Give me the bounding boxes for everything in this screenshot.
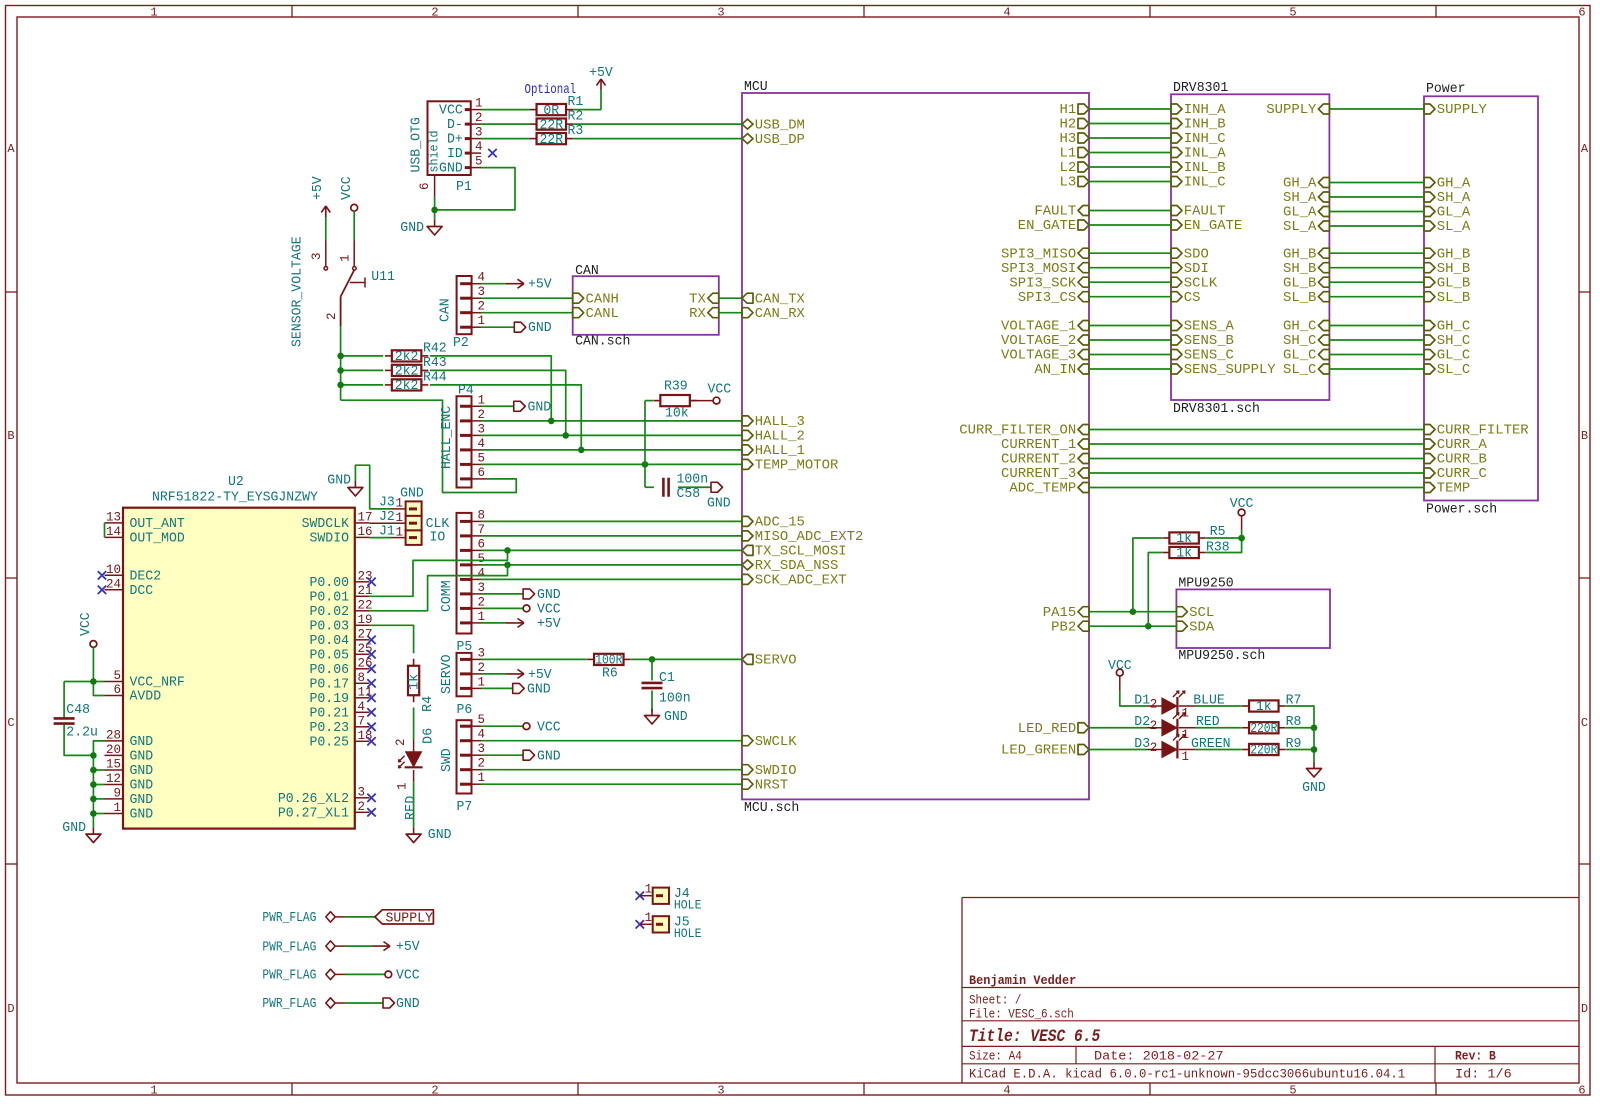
svg-text:CURR_C: CURR_C xyxy=(1437,467,1487,482)
svg-text:HOLE: HOLE xyxy=(674,927,702,941)
svg-text:SENS_C: SENS_C xyxy=(1184,349,1234,364)
svg-text:AN_IN: AN_IN xyxy=(1034,363,1076,378)
wire VCC to D1 xyxy=(1120,690,1147,706)
svg-text:2: 2 xyxy=(431,1084,438,1098)
svg-text:1: 1 xyxy=(396,782,410,790)
sheet pin EN_GATE (DRV8301) xyxy=(1171,219,1242,234)
ground symbol (LEDs) xyxy=(1302,762,1326,796)
svg-text:P6: P6 xyxy=(457,703,473,718)
svg-text:TX_SCL_MOSI: TX_SCL_MOSI xyxy=(755,545,847,560)
resistor R38 xyxy=(1162,541,1229,562)
sheet pin CURR_A (Power) xyxy=(1424,438,1488,453)
svg-text:CURR_FILTER: CURR_FILTER xyxy=(1437,424,1529,439)
wire TX_SCL_MOSI xyxy=(481,549,742,551)
sheet pin GL_A (Power) xyxy=(1424,206,1471,221)
sheet CAN (CAN.sch) xyxy=(573,264,719,350)
sheet pin AN_IN xyxy=(1034,363,1089,378)
power +5V (flag) xyxy=(372,940,421,955)
sheet MPU9250 (MPU9250.sch) xyxy=(1176,577,1330,665)
svg-text:Optional: Optional xyxy=(525,82,577,98)
svg-text:SL_C: SL_C xyxy=(1437,363,1470,378)
svg-text:TEMP_MOTOR: TEMP_MOTOR xyxy=(755,459,839,474)
svg-text:GL_C: GL_C xyxy=(1437,349,1470,364)
svg-text:1: 1 xyxy=(150,6,157,20)
svg-text:CAN_TX: CAN_TX xyxy=(755,292,805,307)
svg-text:GND: GND xyxy=(1302,781,1326,796)
svg-text:SL_B: SL_B xyxy=(1437,291,1470,306)
wire CURR_B MCU to Power xyxy=(1089,458,1424,460)
label CLK IO xyxy=(426,517,451,546)
sheet pin RX xyxy=(689,307,719,322)
svg-text:8: 8 xyxy=(478,508,486,522)
wire P7 pin 3 to GND xyxy=(481,754,523,756)
svg-text:NRF51822-TY_EYSGJNZWY: NRF51822-TY_EYSGJNZWY xyxy=(152,491,318,506)
wire NRST xyxy=(481,783,742,785)
LED D3 GREEN xyxy=(1134,735,1230,764)
sheet pin TX xyxy=(689,292,719,307)
svg-text:2: 2 xyxy=(1150,741,1158,755)
svg-text:OUT_ANT: OUT_ANT xyxy=(130,517,185,532)
wire R7 to LED ground rail xyxy=(1286,706,1314,728)
sheet pin L3 xyxy=(1060,176,1090,191)
sheet pin CURR_FILTER (Power) xyxy=(1424,424,1529,439)
svg-text:VCC: VCC xyxy=(1230,497,1254,512)
svg-text:2: 2 xyxy=(1150,698,1158,712)
svg-text:MISO_ADC_EXT2: MISO_ADC_EXT2 xyxy=(755,530,864,545)
svg-text:GH_A: GH_A xyxy=(1283,177,1317,192)
sheet pin INH_B (DRV8301) xyxy=(1171,118,1226,133)
svg-text:2: 2 xyxy=(478,757,486,771)
svg-text:R4: R4 xyxy=(421,696,436,712)
svg-text:P2: P2 xyxy=(453,336,469,351)
svg-text:P0.23: P0.23 xyxy=(310,721,350,736)
svg-text:INH_C: INH_C xyxy=(1184,132,1226,147)
svg-text:SDI: SDI xyxy=(1184,262,1209,277)
svg-text:R44: R44 xyxy=(423,371,447,386)
sheet pin TEMP (Power) xyxy=(1424,482,1470,497)
wire ADC_15 xyxy=(481,520,742,522)
connector P6 SERVO xyxy=(440,646,485,718)
sheet pin CAN_RX xyxy=(742,307,805,322)
wire P5 pin 3 to GND xyxy=(481,593,523,595)
wire P7 pin 5 to VCC xyxy=(481,725,523,727)
svg-text:TEMP: TEMP xyxy=(1437,482,1470,497)
power +5V (U11) xyxy=(311,175,330,217)
sheet pin TEMP_MOTOR xyxy=(742,459,838,474)
wire PWR_FLAG to SUPPLY xyxy=(345,916,375,918)
junction LED rail at R8 xyxy=(1311,724,1318,731)
sheet pin HALL_3 xyxy=(742,415,805,430)
wire SWDIO xyxy=(481,769,742,771)
svg-text:SH_B: SH_B xyxy=(1437,262,1470,277)
svg-text:5: 5 xyxy=(1289,6,1296,20)
wire PB2 to SDA xyxy=(1089,625,1176,627)
wire VOLTAGE_2 MCU to DRV8301 xyxy=(1089,339,1171,341)
sheet pin SDO (DRV8301) xyxy=(1171,247,1209,262)
svg-text:H1: H1 xyxy=(1060,103,1077,118)
sheet pin SWCLK xyxy=(742,735,797,750)
sheet pin L2 xyxy=(1060,161,1090,176)
no-connect U2 P0.21 xyxy=(367,708,375,716)
wire MISO_ADC_EXT2 xyxy=(481,535,742,537)
svg-text:1: 1 xyxy=(645,883,653,897)
svg-text:GND: GND xyxy=(528,400,552,415)
svg-text:H2: H2 xyxy=(1060,118,1077,133)
svg-text:AVDD: AVDD xyxy=(130,690,162,705)
svg-text:R39: R39 xyxy=(664,380,688,395)
sheet pin MISO_ADC_EXT2 xyxy=(742,530,863,545)
svg-text:D-: D- xyxy=(447,118,463,133)
global label GND (CAN) xyxy=(514,321,551,336)
wire LED_GREEN to D3 xyxy=(1089,749,1147,751)
sheet pin H2 xyxy=(1060,118,1090,133)
wire H1 MCU to DRV8301 xyxy=(1089,108,1171,110)
connector P2 CAN xyxy=(439,271,486,351)
sheet pin ADC_TEMP xyxy=(1009,482,1089,497)
wire P1 GND and shield to ground xyxy=(435,168,515,220)
wire HALL_2 xyxy=(481,434,742,436)
wire P2 pin 4 to +5V xyxy=(481,283,506,285)
svg-text:3: 3 xyxy=(478,646,486,660)
power VCC (P7) xyxy=(523,720,561,735)
sheet pin GH_B (Power) xyxy=(1424,247,1470,262)
junction HALL_1 xyxy=(578,447,585,454)
wire R3 to MCU USB_DP xyxy=(573,138,742,140)
svg-text:SWDCLK: SWDCLK xyxy=(302,517,350,532)
wire R38 to VCC xyxy=(1206,538,1242,553)
resistor R8 xyxy=(1242,715,1301,737)
wire U11 pin 2 down to resistors and HALL_ENC pin 6 xyxy=(341,326,517,493)
svg-text:SH_A: SH_A xyxy=(1283,191,1317,206)
svg-text:2k2: 2k2 xyxy=(395,365,419,380)
sheet pin SUPPLY (Power) xyxy=(1424,103,1487,118)
svg-text:SCL: SCL xyxy=(1189,606,1214,621)
svg-text:SL_B: SL_B xyxy=(1283,291,1316,306)
wire PA15 to SCL xyxy=(1089,611,1176,613)
junction GND rail xyxy=(90,810,97,817)
sheet pin SL_B (Power) xyxy=(1424,291,1470,306)
svg-text:SL_A: SL_A xyxy=(1437,220,1471,235)
wire VCC to VCC_NRF AVDD and C48 xyxy=(64,647,104,717)
sheet MCU (MCU.sch) xyxy=(742,80,1089,816)
wire D6 to ground xyxy=(413,782,415,827)
wire SH_B DRV8301 to Power xyxy=(1329,267,1424,269)
wire CURR_FILTER MCU to Power xyxy=(1089,429,1424,431)
svg-text:4: 4 xyxy=(478,566,486,580)
wire SH_A DRV8301 to Power xyxy=(1329,196,1424,198)
svg-text:SUPPLY: SUPPLY xyxy=(386,911,433,926)
sheet pin FAULT xyxy=(1034,205,1089,220)
svg-text:shield: shield xyxy=(428,131,442,173)
wire PWR_FLAG to +5V xyxy=(345,945,372,947)
svg-text:GND: GND xyxy=(428,828,452,843)
sheet pin ADC_15 xyxy=(742,516,805,531)
wire R8 to LED ground rail xyxy=(1286,727,1314,729)
wire FAULT MCU to DRV8301 xyxy=(1089,210,1171,212)
resistor R44 xyxy=(385,371,447,395)
svg-text:VCC: VCC xyxy=(396,969,420,984)
svg-text:USB_DP: USB_DP xyxy=(755,133,805,148)
svg-text:A: A xyxy=(1581,142,1589,156)
junction GND rail xyxy=(90,796,97,803)
wire SERVO to C1 xyxy=(651,659,653,680)
svg-text:LED_GREEN: LED_GREEN xyxy=(1001,744,1076,759)
svg-text:VCC: VCC xyxy=(537,603,561,618)
svg-text:Rev: B: Rev: B xyxy=(1455,1050,1496,1064)
svg-text:SENS_B: SENS_B xyxy=(1184,334,1234,349)
connector P4 HALL_ENC xyxy=(440,384,486,488)
svg-text:GH_B: GH_B xyxy=(1437,247,1470,262)
global label GND (C58) xyxy=(707,482,731,511)
wire P0.02 to RX_SDA_NSS xyxy=(369,565,507,611)
svg-text:MPU9250: MPU9250 xyxy=(1178,577,1233,592)
svg-text:C1: C1 xyxy=(659,671,675,686)
svg-text:HALL_3: HALL_3 xyxy=(755,415,805,430)
svg-text:R6: R6 xyxy=(602,667,618,682)
wire PWR_FLAG to GND xyxy=(345,1002,383,1004)
svg-text:0R: 0R xyxy=(543,104,559,119)
svg-text:P0.21: P0.21 xyxy=(310,707,350,722)
power +5V (P6) xyxy=(506,668,553,683)
wire TEMP MCU to Power xyxy=(1089,487,1424,489)
svg-text:RX_SDA_NSS: RX_SDA_NSS xyxy=(755,559,839,574)
svg-text:GND: GND xyxy=(707,497,731,512)
svg-text:6: 6 xyxy=(478,466,486,480)
svg-text:ADC_TEMP: ADC_TEMP xyxy=(1009,482,1076,497)
svg-text:D: D xyxy=(1581,1002,1588,1016)
title block xyxy=(962,898,1579,1084)
sheet pin EN_GATE xyxy=(1018,219,1089,234)
global label GND (P6) xyxy=(513,683,551,698)
svg-text:P7: P7 xyxy=(457,800,473,815)
svg-text:HALL_1: HALL_1 xyxy=(755,444,805,459)
sheet pin HALL_2 xyxy=(742,430,805,445)
svg-text:22R: 22R xyxy=(539,118,563,133)
svg-text:Benjamin Vedder: Benjamin Vedder xyxy=(969,973,1076,988)
sheet pin GL_B (Power) xyxy=(1424,276,1470,291)
sheet pin CURRENT_2 xyxy=(1001,453,1089,468)
junction GND rail xyxy=(90,781,97,788)
power VCC (U2) xyxy=(79,612,97,647)
wire SH_C DRV8301 to Power xyxy=(1329,339,1424,341)
svg-text:1: 1 xyxy=(475,97,483,111)
junction TX_SCL_MOSI xyxy=(504,547,511,554)
svg-text:HOLE: HOLE xyxy=(674,899,702,913)
svg-text:FAULT: FAULT xyxy=(1034,205,1076,220)
wire P0.01 to TX_SCL_MOSI xyxy=(369,550,507,596)
wire L3 MCU to DRV8301 xyxy=(1089,181,1171,183)
svg-text:H3: H3 xyxy=(1060,132,1077,147)
svg-text:INL_C: INL_C xyxy=(1184,176,1226,191)
sheet pin GH_C (Power) xyxy=(1424,320,1470,335)
wire LED_RED to D2 xyxy=(1089,727,1147,729)
sheet pin CURRENT_3 xyxy=(1001,467,1089,482)
svg-text:GH_C: GH_C xyxy=(1283,320,1316,335)
wire SWDIO to J1 xyxy=(369,537,391,539)
wire CURR_C MCU to Power xyxy=(1089,472,1424,474)
wire TEMP_MOTOR xyxy=(481,463,742,465)
sheet pin INH_C (DRV8301) xyxy=(1171,132,1226,147)
junction P1 ground xyxy=(431,207,438,214)
wire VCC stem (MPU) xyxy=(1241,530,1243,538)
svg-text:1: 1 xyxy=(645,911,653,925)
svg-text:P0.03: P0.03 xyxy=(310,620,350,635)
ground symbol (P1) xyxy=(400,220,442,236)
sheet pin SPI3_MISO xyxy=(1001,247,1089,262)
svg-text:3: 3 xyxy=(478,581,486,595)
wire SWCLK xyxy=(481,740,742,742)
wire R44 to HALL_1 net xyxy=(430,385,581,450)
power +5V (USB) xyxy=(589,66,614,90)
svg-text:D3: D3 xyxy=(1134,737,1150,752)
svg-text:GL_B: GL_B xyxy=(1437,276,1470,291)
svg-text:4: 4 xyxy=(478,437,486,451)
no-connect U2 P0.23 xyxy=(367,723,375,731)
wire R6 to MCU SERVO xyxy=(631,658,742,660)
sheet pin GL_C (DRV8301 right) xyxy=(1283,349,1329,364)
capacitor C48 xyxy=(54,703,98,741)
sheet pin SL_C (Power) xyxy=(1424,363,1470,378)
svg-text:2: 2 xyxy=(478,661,486,675)
svg-text:SERVO: SERVO xyxy=(440,655,455,695)
wire H3 MCU to DRV8301 xyxy=(1089,137,1171,139)
junction pull-up VCC xyxy=(1238,535,1245,542)
wire D2 to R8 xyxy=(1195,727,1242,729)
wire VOLTAGE_1 MCU to DRV8301 xyxy=(1089,325,1171,327)
resistor R1 xyxy=(530,95,584,119)
svg-text:4: 4 xyxy=(1003,6,1010,20)
svg-text:R42: R42 xyxy=(423,342,447,357)
sheet pin L1 xyxy=(1060,147,1090,162)
svg-text:1: 1 xyxy=(339,254,353,262)
svg-text:P0.05: P0.05 xyxy=(310,649,350,664)
svg-text:P0.27_XL1: P0.27_XL1 xyxy=(278,807,349,822)
wire P1 VCC to R1 to +5V xyxy=(481,90,601,110)
svg-text:SWCLK: SWCLK xyxy=(755,735,798,750)
svg-text:PA15: PA15 xyxy=(1043,606,1076,621)
ground symbol (J3) xyxy=(327,474,363,497)
junction SERVO xyxy=(649,656,656,663)
ground symbol (C1) xyxy=(645,709,688,725)
svg-text:EN_GATE: EN_GATE xyxy=(1018,219,1076,234)
svg-text:P0.04: P0.04 xyxy=(310,634,350,649)
svg-text:SENSOR_VOLTAGE: SENSOR_VOLTAGE xyxy=(291,236,306,347)
svg-text:OUT_MOD: OUT_MOD xyxy=(130,532,185,547)
wire PWR_FLAG to VCC xyxy=(345,973,385,975)
svg-text:Size: A4: Size: A4 xyxy=(969,1050,1022,1064)
junction LED rail at R9 xyxy=(1311,746,1318,753)
resistor R5 xyxy=(1162,525,1225,547)
svg-text:D6: D6 xyxy=(422,728,437,744)
power VCC (P5) xyxy=(523,603,561,618)
junction GND rail xyxy=(90,752,97,759)
svg-text:P0.19: P0.19 xyxy=(310,692,350,707)
svg-text:220R: 220R xyxy=(1250,722,1277,737)
svg-text:GND: GND xyxy=(396,997,420,1012)
svg-text:D: D xyxy=(7,1002,14,1016)
svg-text:MPU9250.sch: MPU9250.sch xyxy=(1178,649,1265,664)
svg-text:GND: GND xyxy=(400,487,424,502)
resistor R6 xyxy=(587,654,631,682)
sheet pin CANH xyxy=(573,292,619,307)
global label GND (HALL) xyxy=(514,400,551,415)
sheet pin CURRENT_1 xyxy=(1001,438,1089,453)
power flag PWR_FLAG (GND) xyxy=(262,997,345,1012)
svg-text:B: B xyxy=(7,429,14,443)
svg-text:U2: U2 xyxy=(228,475,244,490)
wire antenna loop OUT_ANT to OUT_MOD xyxy=(104,523,106,538)
svg-text:P0.06: P0.06 xyxy=(310,663,350,678)
svg-text:2: 2 xyxy=(478,595,486,609)
svg-text:4: 4 xyxy=(478,271,486,285)
sheet Power (Power.sch) xyxy=(1424,82,1538,518)
wire SCL to R5 xyxy=(1133,538,1162,612)
svg-text:Power.sch: Power.sch xyxy=(1426,503,1497,518)
svg-text:3: 3 xyxy=(717,1084,724,1098)
sheet pin LED_GREEN xyxy=(1001,744,1089,759)
sheet pin USB_DM xyxy=(742,118,805,133)
svg-text:VCC: VCC xyxy=(1108,659,1132,674)
svg-text:1k: 1k xyxy=(408,674,423,690)
svg-text:GH_B: GH_B xyxy=(1283,247,1316,262)
resistor R2 xyxy=(530,110,584,134)
wire AN_IN MCU to DRV8301 xyxy=(1089,368,1171,370)
connector P1 USB_OTG xyxy=(410,97,483,196)
svg-text:+5V: +5V xyxy=(589,66,614,81)
sheet pin SENS_B (DRV8301) xyxy=(1171,334,1234,349)
svg-text:1: 1 xyxy=(478,610,486,624)
svg-text:2: 2 xyxy=(325,312,339,320)
svg-text:4: 4 xyxy=(478,728,486,742)
svg-text:DRV8301: DRV8301 xyxy=(1173,81,1228,96)
wire CANH xyxy=(481,297,573,299)
svg-text:P0.01: P0.01 xyxy=(310,591,350,606)
svg-text:CAN: CAN xyxy=(575,264,599,279)
svg-text:1: 1 xyxy=(478,771,486,785)
sheet pin NRST xyxy=(742,778,788,793)
svg-text:FAULT: FAULT xyxy=(1184,205,1226,220)
svg-text:GL_B: GL_B xyxy=(1283,276,1316,291)
svg-text:CAN: CAN xyxy=(439,298,454,322)
power VCC (R39) xyxy=(690,383,731,405)
sheet pin GH_A (DRV8301 right) xyxy=(1283,177,1329,192)
svg-text:6: 6 xyxy=(1578,6,1585,20)
svg-text:INL_A: INL_A xyxy=(1184,147,1227,162)
svg-text:1k: 1k xyxy=(1256,700,1272,715)
svg-text:2: 2 xyxy=(475,111,483,125)
wire CANL xyxy=(481,312,573,314)
svg-text:ADC_15: ADC_15 xyxy=(755,516,805,531)
wire SL_B DRV8301 to Power xyxy=(1329,296,1424,298)
svg-text:CURR_A: CURR_A xyxy=(1437,438,1488,453)
svg-text:3: 3 xyxy=(478,422,486,436)
svg-text:+5V: +5V xyxy=(311,175,326,200)
svg-text:MCU: MCU xyxy=(744,80,768,95)
power VCC (MPU) xyxy=(1230,497,1254,530)
svg-text:SPI3_MOSI: SPI3_MOSI xyxy=(1001,262,1076,277)
svg-text:CURR_B: CURR_B xyxy=(1437,453,1487,468)
wire C58 to GND xyxy=(678,486,711,488)
svg-text:P1: P1 xyxy=(456,180,472,195)
no-connect U2 P0.26_XL2 xyxy=(367,794,375,802)
svg-text:INH_A: INH_A xyxy=(1184,103,1227,118)
svg-text:GL_C: GL_C xyxy=(1283,349,1316,364)
power VCC (flag) xyxy=(385,969,420,984)
sheet pin SERVO xyxy=(742,654,797,669)
wire P6 pin 3 to R6 xyxy=(481,658,587,660)
wire P4 pin 1 to GND xyxy=(481,405,514,407)
svg-text:CURR_FILTER_ON: CURR_FILTER_ON xyxy=(959,424,1076,439)
